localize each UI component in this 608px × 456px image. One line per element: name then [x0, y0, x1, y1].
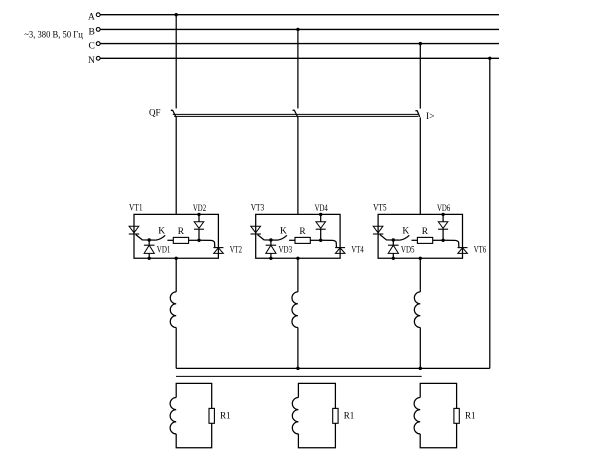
svg-text:~3, 380 В, 50 Гц: ~3, 380 В, 50 Гц [24, 31, 83, 41]
junction C / wire 3 [419, 42, 422, 45]
wire phase C [100, 43, 499, 45]
svg-text:VD6: VD6 [437, 204, 450, 214]
svg-text:R1: R1 [220, 411, 231, 421]
resistor R [167, 239, 173, 241]
svg-text:R: R [422, 227, 429, 237]
gate wire of VT2 [199, 240, 215, 247]
magnetic coupling line [176, 375, 422, 377]
node gate VT1 / VD1 [148, 238, 151, 241]
diode VD3 [266, 240, 277, 258]
diode VD2 [194, 214, 204, 240]
thyristor VT6 [458, 248, 468, 254]
svg-text:K: K [158, 227, 165, 237]
thyristor VT1 [129, 226, 139, 234]
svg-text:R: R [299, 227, 306, 237]
junction module output [419, 257, 422, 260]
svg-text:VD5: VD5 [401, 246, 415, 256]
svg-text:A: A [88, 13, 95, 23]
secondary winding loop 3 [420, 383, 456, 408]
terminal A [96, 13, 100, 17]
reactor coil L2 [292, 292, 298, 328]
QF pole 3 contact blade [416, 111, 420, 117]
QF linkage bar top [173, 113, 419, 115]
contact K arm [400, 235, 409, 240]
contact K arm [278, 235, 287, 240]
junction bus / wire 2 [296, 367, 299, 370]
node gate VT3 / VD3 [269, 238, 272, 241]
thyristor VT4 [335, 248, 345, 254]
wire reactor L1 to bus [175, 328, 177, 369]
junction A / wire 1 [175, 13, 178, 16]
svg-text:VT1: VT1 [129, 204, 143, 214]
thyristor module 3: box [378, 214, 462, 258]
secondary coil 3 [414, 398, 420, 434]
gate wire of VT3 [258, 235, 278, 241]
wire QF to module 2 [297, 117, 299, 214]
junction VD6 to box top [441, 213, 444, 216]
junction bus / wire 3 [419, 367, 422, 370]
svg-text:R1: R1 [344, 411, 355, 421]
thyristor VT5 [373, 226, 383, 234]
resistor R [289, 239, 295, 241]
QF linkage bar bottom [174, 115, 418, 117]
junction N / neutral wire [488, 57, 491, 60]
node R / VD2 [197, 239, 200, 242]
wire phase A [100, 14, 499, 16]
svg-text:N: N [88, 56, 95, 66]
wire phase B down to QF [297, 29, 299, 108]
gate wire of VT5 [380, 235, 400, 241]
wire phase A down to QF [175, 15, 177, 109]
junction module output [296, 257, 299, 260]
wire bottom bus (star point) [176, 367, 490, 369]
secondary winding loop 2 [298, 383, 335, 408]
svg-text:B: B [89, 27, 95, 37]
resistor R [412, 239, 418, 241]
junction B / wire 2 [296, 28, 299, 31]
junction VD4 to box top [319, 213, 322, 216]
secondary coil 2 [292, 398, 298, 434]
svg-text:C: C [89, 42, 95, 52]
svg-text:R1: R1 [465, 411, 476, 421]
wire phase B [100, 28, 499, 30]
svg-text:VT4: VT4 [351, 246, 364, 256]
wire phase N [100, 57, 499, 59]
svg-text:VT6: VT6 [474, 246, 487, 256]
contact K arm [156, 235, 165, 240]
secondary winding loop 1 [176, 383, 212, 408]
gate wire of VT1 [136, 235, 156, 241]
resistor R1 (loop 1) [209, 408, 214, 423]
resistor R1 (loop 3) [454, 408, 459, 423]
QF pole 1 contact blade [171, 110, 176, 117]
wire phase C down to QF [419, 44, 421, 109]
diode VD4 [316, 214, 326, 240]
wire QF to module 3 [419, 117, 421, 214]
diode VD5 [388, 240, 399, 258]
svg-text:VT3: VT3 [251, 204, 265, 214]
junction module output [175, 257, 178, 260]
svg-text:VT5: VT5 [373, 204, 387, 214]
svg-text:VD3: VD3 [279, 246, 293, 256]
wire module 3 to reactor L3 [419, 258, 421, 292]
node R / VD4 [319, 239, 322, 242]
terminal C [96, 42, 100, 46]
wire reactor L3 to bus [419, 328, 421, 369]
diode VD1 [144, 240, 155, 258]
svg-text:I>: I> [426, 112, 435, 122]
diode VD6 [438, 214, 448, 240]
terminal N [96, 56, 100, 60]
svg-text:VD4: VD4 [315, 204, 328, 214]
svg-text:VD1: VD1 [157, 246, 171, 256]
terminal B [96, 28, 100, 32]
svg-text:R: R [178, 227, 185, 237]
svg-text:VD2: VD2 [193, 204, 206, 214]
gate wire of VT4 [321, 240, 337, 247]
svg-text:VT2: VT2 [230, 246, 243, 256]
wire QF to module 1 [175, 117, 177, 214]
reactor coil L1 [170, 292, 176, 328]
svg-text:QF: QF [149, 108, 161, 118]
node gate VT5 / VD5 [392, 238, 395, 241]
junction VD3 to box bottom [269, 257, 272, 260]
wire neutral down right side [489, 58, 491, 368]
junction VD2 to box top [197, 213, 200, 216]
thyristor module 2: box [256, 214, 340, 258]
wire module 2 to reactor L2 [297, 258, 299, 292]
secondary coil 1 [170, 398, 176, 434]
resistor R1 (loop 2) [333, 408, 338, 423]
thyristor VT2 [213, 248, 223, 254]
gate wire of VT6 [443, 240, 459, 247]
svg-text:K: K [402, 227, 409, 237]
svg-text:K: K [280, 227, 287, 237]
wire module 1 to reactor L1 [175, 258, 177, 292]
junction VD5 to box bottom [392, 257, 395, 260]
junction VD1 to box bottom [148, 257, 151, 260]
node R / VD6 [441, 239, 444, 242]
thyristor module 1: box [134, 214, 218, 258]
QF pole 2 contact blade [293, 110, 298, 117]
reactor coil L3 [414, 292, 420, 328]
wire reactor L2 to bus [297, 328, 299, 369]
thyristor VT3 [251, 226, 261, 234]
